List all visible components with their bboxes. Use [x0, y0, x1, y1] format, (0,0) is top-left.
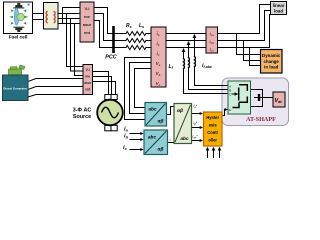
svg-text:oller: oller	[208, 138, 217, 143]
svg-text:PCC: PCC	[105, 55, 116, 61]
svg-text:Fuel cell: Fuel cell	[9, 34, 28, 39]
svg-text:AT-SHAPF: AT-SHAPF	[246, 116, 276, 123]
svg-text:αβ: αβ	[158, 119, 164, 125]
svg-text:asur: asur	[84, 81, 92, 85]
svg-text:V-I: V-I	[86, 68, 90, 72]
svg-text:C: C	[229, 93, 231, 97]
svg-text:V-I: V-I	[85, 6, 90, 11]
svg-text:Hyster: Hyster	[206, 115, 219, 120]
svg-text:A: A	[229, 85, 231, 89]
svg-text:in load: in load	[264, 65, 278, 70]
svg-text:Contr: Contr	[207, 130, 218, 135]
svg-text:αβ: αβ	[177, 108, 183, 114]
svg-text:B: B	[229, 89, 231, 93]
svg-text:abc: abc	[180, 136, 189, 142]
svg-text:3-Φ AC: 3-Φ AC	[73, 108, 92, 114]
svg-text:ent: ent	[84, 30, 91, 35]
svg-text:abc: abc	[148, 107, 157, 113]
svg-text:αβ: αβ	[158, 147, 164, 153]
svg-text:asur: asur	[83, 22, 92, 27]
svg-text:esis: esis	[209, 123, 218, 128]
svg-text:linear: linear	[273, 3, 285, 8]
svg-text:me: me	[84, 14, 91, 19]
svg-text:E: E	[229, 108, 231, 112]
svg-text:change: change	[264, 59, 280, 64]
svg-text:me: me	[85, 75, 90, 79]
svg-text:Dynamic: Dynamic	[262, 53, 281, 58]
svg-text:Diesel Generator: Diesel Generator	[3, 87, 28, 91]
svg-text:Source: Source	[73, 114, 91, 120]
svg-text:load: load	[274, 8, 283, 13]
svg-text:abc: abc	[148, 135, 157, 141]
